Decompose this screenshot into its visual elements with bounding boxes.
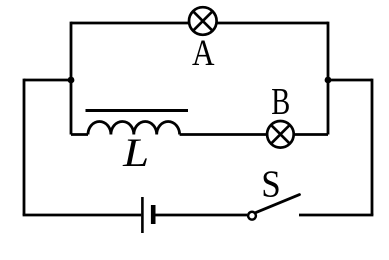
wire bottom right (switch to outer rail) <box>299 214 373 217</box>
battery cell: short thick plate (negative) <box>151 205 156 224</box>
switch S lever arm <box>256 195 300 213</box>
battery cell: long plate (positive) <box>141 197 144 233</box>
inductor L coil (4 humps) <box>88 122 180 135</box>
svg-text:S: S <box>261 164 281 206</box>
wire middle branch right (coil to right rail) <box>180 133 328 136</box>
wire left inner vertical (x71, y23-135.5) <box>70 22 73 135</box>
svg-text:L: L <box>122 130 149 175</box>
svg-text:B: B <box>271 81 290 123</box>
wire right outer vertical <box>371 79 374 215</box>
svg-text:A: A <box>192 32 215 73</box>
wire top (x71-x328 at y23) <box>71 22 328 25</box>
switch S pivot circle <box>248 212 256 220</box>
lamp A (circle with X) <box>189 7 217 35</box>
wire left outer vertical <box>23 79 26 215</box>
wire bottom left (to battery) <box>23 214 142 217</box>
wire right inner vertical (x328, y23-135.5) <box>327 22 330 135</box>
node junction dot right <box>325 77 332 84</box>
lamp B (circle with X) <box>267 121 294 148</box>
wire middle branch left stub <box>71 133 88 136</box>
node junction dot left <box>68 77 75 84</box>
wire left outer horizontal (dot to outer rail) <box>24 79 71 82</box>
wire right outer horizontal (dot to outer rail) <box>328 79 372 82</box>
inductor L core bar <box>86 109 189 112</box>
wire battery to switch <box>156 214 248 217</box>
